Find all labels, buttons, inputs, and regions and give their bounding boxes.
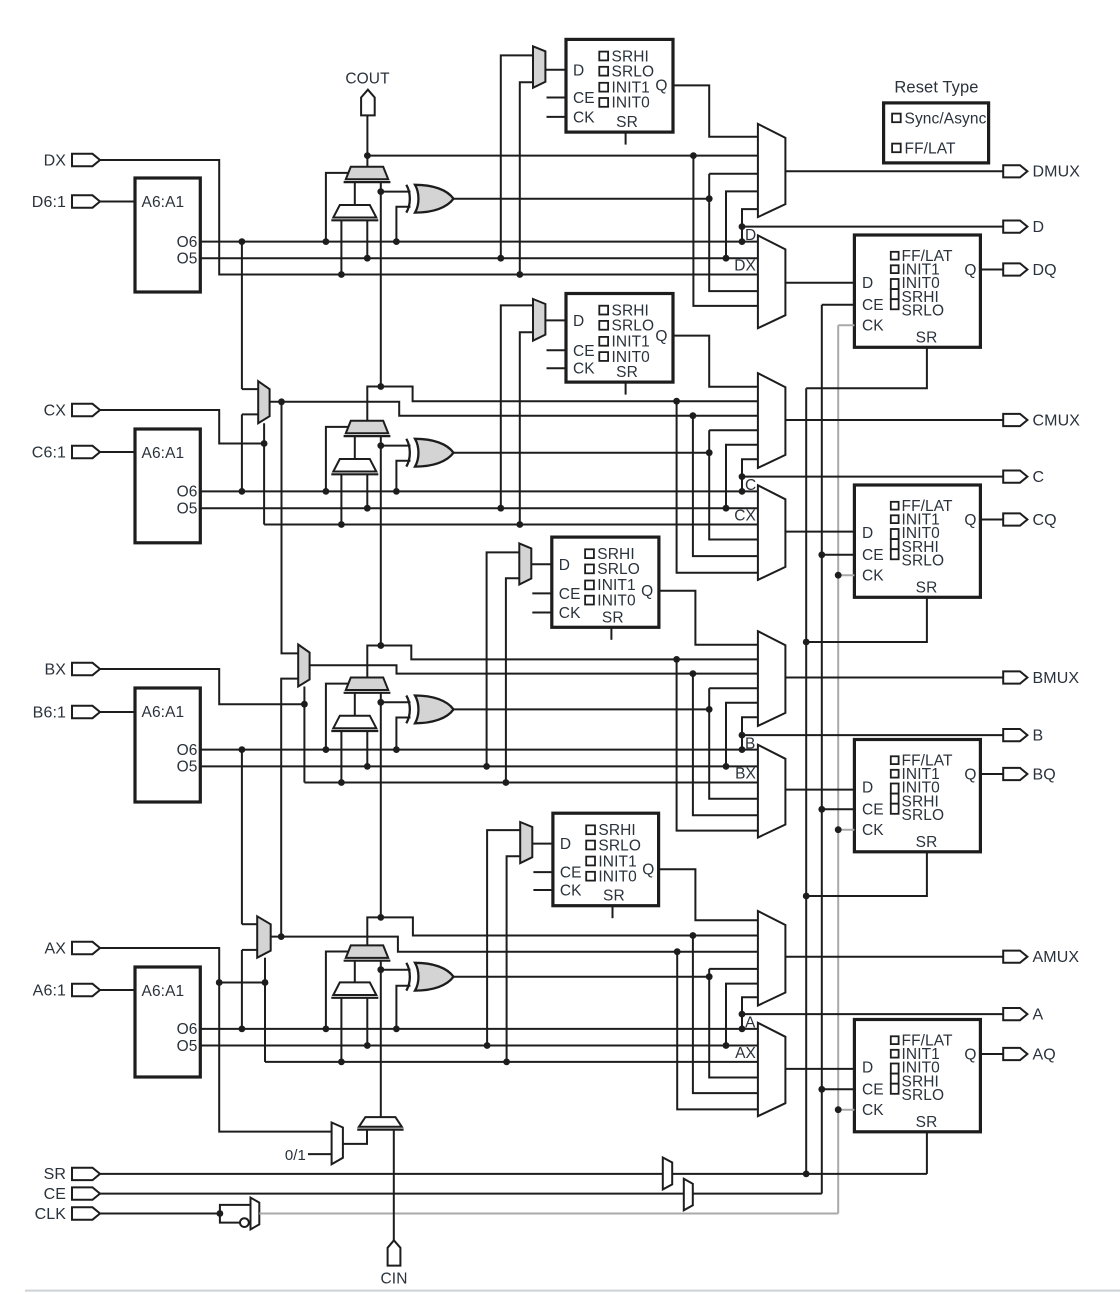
- LUT C (A6:A1, O6/O5) box: [135, 429, 200, 543]
- wire CFF SR return to SR rail: [806, 597, 927, 642]
- svg-text:SR: SR: [916, 1114, 938, 1131]
- storage element C5FF box: [566, 294, 673, 383]
- wire O5 to A5FF D-mux input (upper): [487, 830, 520, 1045]
- wire B output line: [742, 734, 1003, 736]
- wire XOR column to output mux B: [709, 687, 758, 689]
- output pin CQ: [1003, 513, 1027, 525]
- wire XOR column down to DFF input mux: [709, 199, 758, 291]
- wire AFF input mux output to AFF D: [785, 1068, 854, 1070]
- wire BX to B5FF D-mux input (lower): [506, 578, 519, 782]
- wire carry to XOR C upper input: [381, 445, 411, 447]
- wire BFF input mux output to BFF D: [785, 789, 854, 791]
- output mux AOUTMUX: [758, 911, 786, 1006]
- svg-text:Q: Q: [964, 262, 976, 279]
- wire BFF Q to BQ pin: [980, 773, 1003, 775]
- input pin DX: [72, 154, 100, 166]
- mux feeding A5FF D input: [520, 822, 532, 863]
- wire XOR column to output mux D: [709, 173, 758, 175]
- storage element BFF/BLATCH box (BQ): [854, 740, 980, 852]
- wire CFF input mux output to CFF D: [785, 531, 854, 533]
- A5FF CK stub: [533, 889, 553, 891]
- storage element CFF/CLATCH box (CQ): [854, 485, 980, 597]
- svg-text:O5: O5: [177, 501, 198, 518]
- wire O6 to XOR D lower input: [396, 207, 410, 242]
- svg-text:CK: CK: [559, 605, 581, 622]
- storage element B5FF box: [552, 537, 659, 627]
- mux feeding B5FF D input: [519, 543, 531, 584]
- wire O5 riser to output mux D: [726, 191, 758, 258]
- wire MUXCY B carry leg down: [380, 693, 382, 703]
- svg-text:A6:A1: A6:A1: [142, 983, 185, 1000]
- page rule (bottom): [25, 1290, 1120, 1292]
- svg-text:D: D: [862, 525, 873, 542]
- svg-text:CE: CE: [559, 586, 581, 603]
- svg-text:SRLO: SRLO: [612, 64, 655, 81]
- wire XOR column to output mux C: [709, 429, 758, 431]
- input pin CLK: [72, 1207, 100, 1219]
- wire F7/F8 A down to AFF input mux: [674, 948, 681, 955]
- svg-text:CK: CK: [573, 361, 595, 378]
- wire O5 to C5FF D-mux input (upper): [501, 305, 533, 508]
- wire O6 to XOR A lower input: [396, 986, 410, 1029]
- svg-text:SR: SR: [602, 609, 624, 626]
- wire F7BMUX lower input from O6 of this quad: [242, 413, 258, 415]
- legend checkbox Sync/Async: [892, 114, 901, 123]
- wire O5 bus B: [200, 765, 758, 767]
- svg-text:CK: CK: [862, 822, 884, 839]
- wire CX to C5FF D-mux input (lower): [520, 332, 533, 524]
- svg-text:SR: SR: [916, 579, 938, 596]
- svg-text:C6:1: C6:1: [32, 444, 66, 461]
- input pin B6:1: [72, 706, 100, 718]
- XOR gate A (carry xor): [406, 963, 410, 991]
- svg-text:CX: CX: [44, 402, 67, 419]
- svg-text:INIT0: INIT0: [612, 95, 651, 112]
- C5FF CE stub: [547, 349, 567, 351]
- wire DFF Q to DQ pin: [980, 269, 1003, 271]
- wire CLK distribution (gray): [259, 1213, 838, 1215]
- svg-text:BX: BX: [44, 661, 66, 678]
- svg-text:O6: O6: [177, 234, 198, 251]
- output pin DQ: [1003, 263, 1027, 275]
- wire MUXCY D select from O6: [326, 173, 349, 242]
- port CIN (carry in): [388, 1240, 401, 1265]
- wire white mux B right leg to O5: [366, 731, 368, 766]
- wire C6:1 pin to LUT input: [100, 451, 135, 453]
- A5FF SR stub: [612, 906, 614, 919]
- wire carry tap C to output mux: [381, 387, 758, 402]
- wire O6 riser to output mux A: [742, 997, 758, 1029]
- output pin C: [1003, 471, 1027, 483]
- wire CLK rail to AFF CK (gray): [838, 1109, 854, 1111]
- wire AX select vertical / AX bus riser: [264, 958, 266, 1062]
- svg-text:INIT0: INIT0: [597, 592, 636, 609]
- SR gating mux: [663, 1158, 672, 1190]
- wire D5FF D-mux output to D: [545, 69, 566, 71]
- wire D6:1 pin to LUT input: [100, 201, 135, 203]
- A5FF attribute checkboxes SRHI/SRLO/INIT1/INIT0: [586, 825, 595, 834]
- wire clock inverted path: [220, 1214, 240, 1223]
- wire F7AMUX output up to F8MUX lower input: [281, 679, 298, 937]
- svg-text:CE: CE: [862, 297, 884, 314]
- svg-text:A: A: [745, 1015, 756, 1032]
- wire XOR column down to AFF input mux: [709, 977, 758, 1078]
- wire CX bus: [264, 524, 758, 526]
- mux feeding D5FF D input: [533, 46, 545, 88]
- input pin BX: [72, 663, 100, 675]
- wire O5 bus D: [200, 257, 758, 259]
- wire O5 riser to output mux B: [726, 703, 758, 767]
- wire O5 to B5FF D-mux input (upper): [487, 552, 520, 766]
- wire carry tap B to output mux: [381, 646, 758, 660]
- input pin D6:1: [72, 195, 100, 207]
- output mux DOUTMUX: [758, 124, 786, 217]
- wire carry to XOR D upper input: [381, 191, 411, 193]
- svg-text:CIN: CIN: [381, 1270, 408, 1287]
- wire carry tap down to DFF input mux: [693, 156, 758, 306]
- net SR rail (vertical): [805, 388, 807, 1174]
- wire MUXCY D carry leg down: [380, 182, 382, 192]
- svg-text:D: D: [862, 780, 873, 797]
- wire carry chain A down to CYINIT mux output: [380, 970, 382, 1117]
- wire white mux A output up to MUXCY: [354, 961, 356, 983]
- wire white mux B left leg to BX bus: [340, 731, 342, 783]
- svg-text:Q: Q: [655, 78, 667, 95]
- B5FF SR stub: [610, 627, 612, 640]
- wire XOR column to output mux A: [709, 968, 758, 970]
- storage element A5FF box: [553, 813, 659, 906]
- LUT B (A6:A1, O6/O5) box: [135, 688, 200, 802]
- wire BX select vertical / BX bus riser: [303, 687, 305, 783]
- wire BX bus: [304, 782, 758, 784]
- net CLK rail (vertical, gray): [837, 325, 839, 1213]
- svg-text:C: C: [745, 477, 756, 494]
- wire CX select vertical / CX bus riser: [263, 423, 265, 524]
- D5FF CK stub: [547, 116, 567, 118]
- wire CE rail to DFF CE: [822, 304, 855, 306]
- svg-text:Sync/Async: Sync/Async: [905, 110, 987, 127]
- wire carry tap A to output mux: [381, 917, 758, 935]
- svg-text:BMUX: BMUX: [1033, 670, 1080, 687]
- input pin C6:1: [72, 446, 100, 458]
- wire DMUX output line: [785, 170, 1003, 172]
- legend checkbox FF/LAT: [892, 144, 901, 153]
- svg-text:SR: SR: [603, 888, 625, 905]
- wire AFF Q to AQ pin: [980, 1053, 1003, 1055]
- wire white mux D left leg to DX bus: [340, 220, 342, 274]
- svg-text:D: D: [862, 275, 873, 292]
- wire carry chain D up to COUT with tap: [366, 115, 368, 166]
- B5FF CE stub: [532, 592, 552, 594]
- svg-text:INIT0: INIT0: [612, 349, 651, 366]
- wire XOR column down to BFF input mux: [709, 709, 758, 798]
- wire carry chain C to B: [380, 446, 382, 646]
- svg-text:CE: CE: [44, 1186, 66, 1203]
- D5FF attribute checkboxes SRHI/SRLO/INIT1/INIT0: [599, 52, 608, 61]
- wire carry tap C down to CFF input mux: [677, 401, 758, 573]
- port COUT (carry out): [361, 90, 375, 116]
- D5FF SR stub: [625, 132, 627, 145]
- DFF input select mux: [758, 235, 786, 328]
- svg-text:CK: CK: [862, 318, 884, 335]
- AFF attribute checkboxes FF/LAT INIT1 INIT0 SRHI SRLO: [891, 1036, 899, 1044]
- wire white mux C left leg to CX bus: [340, 474, 342, 524]
- node AX tap to carry-init: [216, 979, 223, 986]
- svg-text:O5: O5: [177, 1038, 198, 1055]
- input pin AX: [72, 942, 100, 954]
- svg-text:O6: O6: [177, 484, 198, 501]
- wire F7BMUX input from C O6 (vertical): [241, 414, 243, 491]
- carry mux MUXCY A (shaded): [346, 945, 388, 958]
- wire A5FF Q to output mux: [659, 869, 758, 920]
- XOR gate B (carry xor): [406, 696, 410, 724]
- wire carry to XOR A upper input: [381, 969, 411, 971]
- wire XOR A output: [454, 976, 710, 978]
- svg-text:A6:1: A6:1: [33, 982, 66, 999]
- wire O5 bus A: [200, 1045, 758, 1047]
- wire SR line: [100, 1173, 663, 1175]
- wire CMUX output line: [785, 419, 1003, 421]
- input pin CE: [72, 1187, 100, 1199]
- carry mux MUXCY B (shaded): [346, 678, 388, 691]
- wire AX bus: [265, 1061, 758, 1063]
- svg-text:CE: CE: [862, 802, 884, 819]
- C5FF attribute checkboxes SRHI/SRLO/INIT1/INIT0: [599, 306, 608, 315]
- wire SR mux output to rail and AFF: [672, 1173, 927, 1175]
- output pin CMUX: [1003, 414, 1027, 426]
- wire BFF SR return to SR rail: [806, 852, 927, 896]
- svg-text:CE: CE: [573, 90, 595, 107]
- wire AX to A5FF D-mux input (lower): [507, 856, 521, 1062]
- XOR gate C (carry xor): [406, 439, 410, 467]
- svg-text:CE: CE: [862, 547, 884, 564]
- wire CFF Q to CQ pin: [980, 519, 1003, 521]
- CE gating mux: [684, 1179, 693, 1211]
- clock inverter bubble: [240, 1218, 249, 1227]
- O5/CX carry select mux C: [333, 459, 376, 472]
- svg-text:Q: Q: [964, 1046, 976, 1063]
- XOR gate D (carry xor): [406, 185, 410, 213]
- wire CE rail to CFF CE: [822, 554, 855, 556]
- wire AMUX output line: [785, 956, 1003, 958]
- svg-text:CE: CE: [573, 343, 595, 360]
- wire F7AMUX upper input from O6 above: [242, 923, 257, 925]
- wire CE line: [100, 1193, 684, 1195]
- wire BMUX output line: [785, 677, 1003, 679]
- wire O6 to XOR C lower input: [396, 461, 410, 492]
- wire carry chain A up-jog: [367, 917, 381, 945]
- wire O5 riser to output mux A: [726, 984, 758, 1046]
- svg-text:SR: SR: [916, 329, 938, 346]
- wire CYINIT select mux output: [343, 1130, 367, 1144]
- wire F7AMUX lower input from O6 of this quad: [242, 949, 257, 951]
- svg-text:D: D: [862, 1060, 873, 1077]
- wire CE mux output to CE rail: [693, 1193, 822, 1195]
- wire O5 to D5FF D-mux input (upper): [501, 55, 533, 258]
- wire A5FF D-mux output to D: [532, 843, 553, 845]
- svg-text:O6: O6: [177, 742, 198, 759]
- svg-text:SR: SR: [916, 834, 938, 851]
- wire O6 riser to output mux C: [742, 459, 758, 491]
- svg-text:B6:1: B6:1: [33, 704, 66, 721]
- wire F7AMUX input from A O6 (vertical): [241, 950, 243, 1029]
- output pin BMUX: [1003, 671, 1027, 683]
- svg-text:A6:A1: A6:A1: [142, 704, 185, 721]
- svg-text:SRLO: SRLO: [612, 318, 655, 335]
- input pin CX: [72, 404, 100, 416]
- CYINIT select mux (0/1/AX): [332, 1123, 343, 1165]
- svg-text:A: A: [1033, 1006, 1044, 1023]
- wire MUXCY A carry leg down: [380, 961, 382, 970]
- svg-text:Q: Q: [964, 512, 976, 529]
- wire carry chain D to C: [380, 192, 382, 387]
- svg-text:A6:A1: A6:A1: [142, 194, 185, 211]
- svg-text:AQ: AQ: [1033, 1046, 1056, 1063]
- svg-text:AX: AX: [44, 940, 66, 957]
- wire DFF input mux output to DFF D: [785, 282, 854, 284]
- svg-text:0/1: 0/1: [285, 1147, 306, 1164]
- LUT D (A6:A1, O6/O5) box: [135, 178, 200, 292]
- wire white mux D output up to MUXCY: [354, 182, 356, 205]
- wire BX pin to select junction: [100, 669, 304, 704]
- svg-text:DMUX: DMUX: [1033, 164, 1081, 181]
- svg-text:SRLO: SRLO: [902, 553, 945, 570]
- carry init mux CYINIT: [359, 1117, 402, 1127]
- svg-text:SRLO: SRLO: [597, 561, 640, 578]
- wire carry chain B up-jog: [367, 646, 381, 678]
- wire AX pin to select junction (continues to CYINIT mux): [100, 948, 265, 983]
- C5FF SR stub: [625, 382, 627, 395]
- input pin SR: [72, 1168, 100, 1180]
- wire clock true path: [220, 1205, 251, 1214]
- wire white mux B output up to MUXCY: [354, 693, 356, 716]
- output pin BQ: [1003, 768, 1027, 780]
- wire CLK rail to DFF CK (gray): [838, 324, 854, 326]
- svg-text:SR: SR: [44, 1166, 66, 1183]
- wire white mux A right leg to O5: [366, 998, 368, 1046]
- wide-function mux F7AMUX: [257, 916, 271, 957]
- svg-text:Q: Q: [655, 328, 667, 345]
- clock polarity mux: [251, 1198, 260, 1230]
- svg-text:CLK: CLK: [35, 1206, 67, 1223]
- wire CLK rail to BFF CK (gray): [838, 829, 854, 831]
- svg-text:D6:1: D6:1: [32, 194, 66, 211]
- wire carry chain B to A: [380, 702, 382, 917]
- wire DX to D5FF D-mux input (lower): [520, 82, 533, 274]
- wire carry chain C up-jog: [367, 387, 381, 421]
- svg-text:D: D: [560, 836, 571, 853]
- svg-text:AX: AX: [735, 1045, 756, 1062]
- svg-text:SR: SR: [616, 364, 638, 381]
- svg-text:O5: O5: [177, 759, 198, 776]
- svg-text:SRLO: SRLO: [902, 807, 945, 824]
- output pin DMUX: [1003, 165, 1027, 177]
- C5FF CK stub: [547, 367, 567, 369]
- wire F7/F8 B down to BFF input mux: [690, 670, 697, 677]
- wire AFF SR stub down to SR line: [926, 1132, 928, 1174]
- wire O6 to XOR B lower input: [396, 718, 410, 750]
- output pin AQ: [1003, 1048, 1027, 1060]
- svg-text:CE: CE: [862, 1082, 884, 1099]
- net CE rail (vertical): [821, 305, 823, 1194]
- B5FF CK stub: [532, 612, 552, 614]
- wire F7BMUX input from D O6 (vertical): [241, 242, 243, 390]
- svg-text:AMUX: AMUX: [1033, 949, 1080, 966]
- svg-text:CQ: CQ: [1033, 512, 1057, 529]
- CFF input select mux: [758, 485, 786, 580]
- wire XOR D output: [454, 198, 710, 200]
- CFF attribute checkboxes FF/LAT INIT1 INIT0 SRHI SRLO: [891, 502, 899, 510]
- wire carry tap B down to BFF input mux: [677, 659, 758, 830]
- output mux COUTMUX: [758, 373, 786, 468]
- wire XOR column down to CFF input mux: [709, 453, 758, 540]
- wide-function mux F7BMUX: [258, 381, 269, 423]
- wire F7BMUX output down to F8MUX upper input: [282, 402, 299, 654]
- BFF attribute checkboxes FF/LAT INIT1 INIT0 SRHI SRLO: [891, 756, 899, 764]
- svg-text:BQ: BQ: [1033, 766, 1056, 783]
- wire 0/1 into CYINIT select mux: [308, 1153, 332, 1155]
- wire A6:1 pin to LUT input: [100, 989, 135, 991]
- svg-text:BX: BX: [735, 766, 756, 783]
- wire O6 bus B: [200, 749, 758, 751]
- wire MUXCY C carry leg down: [380, 436, 382, 446]
- wire F8MUX output: [310, 665, 758, 673]
- svg-text:DQ: DQ: [1033, 262, 1057, 279]
- wire CE rail to BFF CE: [822, 808, 855, 810]
- wire white mux C right leg to O5: [366, 474, 368, 508]
- svg-text:A6:A1: A6:A1: [142, 445, 185, 462]
- wire F7BMUX output: [270, 402, 758, 416]
- wire AX feed down to 0/1 mux: [219, 983, 331, 1132]
- svg-text:INIT0: INIT0: [598, 869, 637, 886]
- wire carry to XOR B upper input: [381, 701, 411, 703]
- BFF input select mux: [758, 745, 786, 838]
- wire B6:1 pin to LUT input: [100, 711, 135, 713]
- svg-text:D: D: [1033, 219, 1045, 236]
- wide-function mux F8MUX: [298, 645, 309, 687]
- wire CE rail to AFF CE: [822, 1088, 855, 1090]
- svg-text:CK: CK: [862, 1102, 884, 1119]
- svg-text:Q: Q: [642, 862, 654, 879]
- storage element DFF/DLATCH box (DQ): [854, 235, 980, 347]
- B5FF attribute checkboxes SRHI/SRLO/INIT1/INIT0: [585, 549, 594, 558]
- wire C5FF Q to output mux: [673, 336, 758, 387]
- svg-text:CK: CK: [560, 883, 582, 900]
- svg-text:CMUX: CMUX: [1033, 412, 1081, 429]
- wire O5 riser to output mux C: [726, 445, 758, 509]
- wire C output line: [742, 476, 1003, 478]
- wire XOR B output: [454, 708, 710, 710]
- O5/DX carry select mux D: [333, 205, 376, 218]
- svg-text:SR: SR: [616, 114, 638, 131]
- svg-text:Q: Q: [964, 766, 976, 783]
- AFF input select mux: [758, 1023, 786, 1116]
- wire MUXCY C select from O6: [326, 427, 349, 492]
- mux feeding C5FF D input: [533, 299, 545, 341]
- wire B5FF Q to output mux: [659, 591, 758, 645]
- wire white mux D right leg to O5: [366, 220, 368, 258]
- svg-text:DX: DX: [734, 258, 756, 275]
- output pin D: [1003, 221, 1027, 233]
- output pin B: [1003, 729, 1027, 741]
- A5FF CE stub: [533, 871, 553, 873]
- wire DFF SR return to SR rail: [806, 347, 927, 388]
- carry mux MUXCY C (shaded): [346, 421, 388, 434]
- svg-text:C: C: [1033, 469, 1045, 486]
- svg-text:D: D: [559, 557, 570, 574]
- wire CIN riser: [393, 1130, 395, 1241]
- wire O6 riser to output mux B: [742, 717, 758, 749]
